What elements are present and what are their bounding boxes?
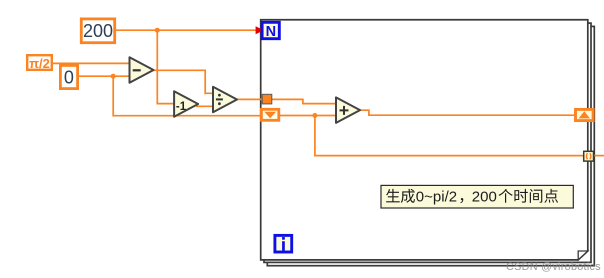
wire: left shift register to add bottom input xyxy=(280,115,336,117)
wire: pi/2 constant to subtract top input xyxy=(53,62,130,64)
wire: decrement output to divide bottom input xyxy=(196,105,214,107)
wire: tunnel to add top input xyxy=(272,99,336,103)
right shift register (up arrow) xyxy=(576,109,594,120)
wire: branch from 200 down to decrement input xyxy=(157,30,174,103)
red feed arrow into N terminal xyxy=(256,26,264,34)
wire: branch from 0 down and right to left shift register xyxy=(113,76,261,116)
for-loop stacked layer 3 (back) xyxy=(267,26,594,265)
for-loop stacked layer 2 (middle) xyxy=(264,23,591,262)
junction on shift register wire xyxy=(312,113,317,118)
numeric constant 0 xyxy=(60,65,77,88)
N count terminal xyxy=(262,22,279,40)
junction on 0 wire xyxy=(111,74,116,79)
subtract function xyxy=(130,57,154,82)
svg-text:200: 200 xyxy=(83,21,113,41)
wire: subtract output to divide top input xyxy=(153,70,214,93)
numeric constant 200 xyxy=(81,19,114,43)
i iteration terminal xyxy=(275,235,292,252)
wire: 0 constant to subtract bottom input xyxy=(79,75,130,77)
wire: divide output to loop tunnel xyxy=(236,98,262,100)
add function xyxy=(336,97,360,123)
for-loop border (front layer, folded corner) xyxy=(261,20,588,260)
page-curl fold flap at bottom-right xyxy=(578,251,588,260)
svg-text:-1: -1 xyxy=(176,101,187,113)
svg-text:CSDN @virobotics: CSDN @virobotics xyxy=(506,261,601,273)
tunnel (solid, divide output into loop) xyxy=(262,94,272,104)
divide function xyxy=(213,87,237,112)
junction on 200 wire xyxy=(155,28,160,33)
wire: branch down to indexing tunnel xyxy=(315,116,584,156)
svg-text:π/2: π/2 xyxy=(29,56,50,71)
wire: indexing tunnel out of loop to right edge xyxy=(594,155,604,157)
svg-text:0: 0 xyxy=(64,68,74,88)
pi/2 constant xyxy=(27,55,52,71)
comment label "生成0~pi/2，200个时间点" xyxy=(381,185,573,208)
wire: add output to right shift register xyxy=(360,110,575,115)
svg-text:200: 200 xyxy=(472,189,497,206)
svg-text:N: N xyxy=(266,24,276,40)
auto-indexing tunnel on right border xyxy=(584,151,594,161)
wire: 200 constant to N terminal xyxy=(116,29,257,31)
svg-text:0~pi/2: 0~pi/2 xyxy=(416,189,457,206)
decrement function (-1) xyxy=(174,91,198,116)
left shift register (down arrow) xyxy=(261,109,278,120)
